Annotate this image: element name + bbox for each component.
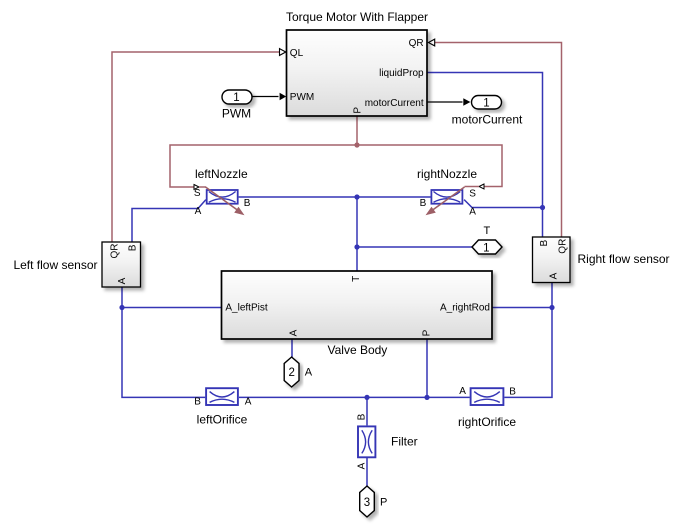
nozzle arcs xyxy=(434,192,461,203)
port arrow leftNozzle S (hollow) xyxy=(194,185,199,190)
wire: P junction to leftNozzle S xyxy=(170,145,357,187)
block Right flow sensor xyxy=(533,237,670,283)
svg-text:A: A xyxy=(288,329,299,336)
wire: bus down to Filter B xyxy=(366,397,368,425)
physical port T (1) xyxy=(472,225,502,254)
wire: PWM Inport to Torque Motor PWM (signal) xyxy=(252,96,279,98)
wire: Left flow sensor QR to Torque Motor QL (thermal liquid) xyxy=(112,52,280,242)
svg-text:1: 1 xyxy=(483,242,489,254)
junction right A split xyxy=(549,305,554,310)
svg-text:A: A xyxy=(195,206,202,217)
wire: Valve Body P down to bus xyxy=(426,339,428,397)
svg-text:P: P xyxy=(353,107,364,114)
inport 1 PWM xyxy=(222,90,252,121)
block Filter xyxy=(356,413,417,469)
svg-text:A: A xyxy=(548,272,559,279)
junction left A split xyxy=(119,305,124,310)
orifice arcs xyxy=(474,392,500,403)
svg-text:2: 2 xyxy=(288,367,294,379)
svg-text:B: B xyxy=(128,244,139,251)
svg-text:Left flow sensor: Left flow sensor xyxy=(13,258,97,272)
svg-text:B: B xyxy=(244,198,251,209)
wire: Left flow sensor A down xyxy=(121,287,123,308)
svg-text:1: 1 xyxy=(233,92,239,104)
variable arrow xyxy=(433,187,465,210)
wire: junction down to leftOrifice B xyxy=(122,308,205,398)
junction liquidProp / rightNozzle A xyxy=(540,205,545,210)
svg-text:B: B xyxy=(194,397,201,408)
svg-text:A: A xyxy=(117,277,128,284)
svg-text:motorCurrent: motorCurrent xyxy=(452,113,523,127)
junction T branch xyxy=(354,244,359,249)
wire: Valve Body A to port 2 xyxy=(291,339,293,357)
svg-text:S: S xyxy=(194,188,201,199)
block Left flow sensor xyxy=(13,242,140,287)
svg-text:P: P xyxy=(422,329,433,336)
svg-text:QR: QR xyxy=(409,38,424,49)
physical port A (2) xyxy=(284,357,313,387)
svg-text:Filter: Filter xyxy=(391,435,418,449)
junction P bus xyxy=(424,395,429,400)
svg-text:1: 1 xyxy=(483,98,489,110)
wire: branch to T port xyxy=(357,246,472,248)
block U1 Torque Motor With Flapper xyxy=(286,10,428,116)
svg-text:A: A xyxy=(245,397,252,408)
wire: Torque Motor liquidProp to Right flow sensor B xyxy=(427,73,543,238)
arrowhead PWM xyxy=(280,93,287,100)
svg-text:B: B xyxy=(356,413,367,420)
svg-text:B: B xyxy=(539,240,550,247)
svg-text:QL: QL xyxy=(290,48,304,59)
orifice arcs xyxy=(210,392,235,403)
svg-text:liquidProp: liquidProp xyxy=(379,68,424,79)
port arrow QL (hollow) xyxy=(280,49,286,56)
block rightOrifice xyxy=(458,386,516,429)
wire: Torque Motor motorCurrent to Outport (signal) xyxy=(427,101,463,103)
svg-text:P: P xyxy=(380,497,387,509)
svg-text:A_rightRod: A_rightRod xyxy=(440,303,490,314)
wire: rightNozzle A to liquidProp line xyxy=(464,200,542,208)
junction nozzle bus xyxy=(354,194,359,199)
port arrow rightNozzle S (hollow) xyxy=(479,184,484,189)
wire: Filter A to port 3 xyxy=(366,458,368,486)
svg-text:leftNozzle: leftNozzle xyxy=(195,167,248,181)
block leftOrifice xyxy=(194,388,251,426)
svg-text:Valve Body: Valve Body xyxy=(327,343,387,357)
svg-text:PWM: PWM xyxy=(222,107,251,121)
port arrow QR (hollow) xyxy=(428,39,434,46)
stub to leftNozzle arrow end xyxy=(199,186,206,188)
outport 1 motorCurrent xyxy=(452,96,523,127)
svg-text:QR: QR xyxy=(110,244,121,259)
junction P split xyxy=(354,142,359,147)
svg-text:T: T xyxy=(351,276,362,282)
variable arrow xyxy=(206,187,238,210)
svg-text:Torque Motor With Flapper: Torque Motor With Flapper xyxy=(286,10,428,24)
wire: Torque Motor P down to junction xyxy=(356,116,358,145)
svg-text:leftOrifice: leftOrifice xyxy=(197,413,248,427)
svg-text:QR: QR xyxy=(558,239,569,254)
svg-text:PWM: PWM xyxy=(290,92,314,103)
physical port P (3) xyxy=(360,486,388,517)
wire: junction to Valve Body A_leftPist xyxy=(122,307,222,309)
block rightNozzle (variable orifice) xyxy=(417,167,477,218)
wire: leftNozzle A to Left flow sensor B xyxy=(132,200,206,242)
svg-text:A: A xyxy=(356,462,367,469)
wire: P junction to rightNozzle S xyxy=(357,145,502,187)
wire: Valve Body A_rightRod to junction xyxy=(492,307,552,309)
svg-text:Right flow sensor: Right flow sensor xyxy=(578,252,670,266)
junction filter bus xyxy=(364,395,369,400)
svg-text:A: A xyxy=(459,386,466,397)
svg-text:A_leftPist: A_leftPist xyxy=(225,303,267,314)
wire: bottom bus leftOrifice A to rightOrifice A xyxy=(239,396,470,398)
svg-text:rightNozzle: rightNozzle xyxy=(417,167,477,181)
svg-text:motorCurrent: motorCurrent xyxy=(365,98,424,109)
svg-text:A: A xyxy=(469,207,476,218)
wire: Right flow sensor QR to Torque Motor QR (thermal liquid) xyxy=(435,43,562,238)
svg-text:3: 3 xyxy=(364,497,370,509)
svg-text:S: S xyxy=(469,188,476,199)
wire: leftNozzle B to rightNozzle B bus xyxy=(239,196,431,198)
stub to rightNozzle arrow end xyxy=(465,186,480,188)
block Valve Body xyxy=(222,271,493,357)
block leftNozzle (variable orifice) xyxy=(194,167,251,217)
svg-text:B: B xyxy=(509,386,516,397)
svg-text:A: A xyxy=(305,367,313,379)
filter arcs xyxy=(362,430,372,453)
svg-text:T: T xyxy=(484,225,491,237)
svg-text:B: B xyxy=(420,198,427,209)
wire: nozzle bus down to Valve Body T xyxy=(356,197,358,271)
wire: Right flow sensor A down to rightOrifice B xyxy=(504,283,552,398)
nozzle arcs xyxy=(209,192,236,203)
arrowhead motorCurrent xyxy=(463,98,470,105)
svg-text:rightOrifice: rightOrifice xyxy=(458,415,516,429)
